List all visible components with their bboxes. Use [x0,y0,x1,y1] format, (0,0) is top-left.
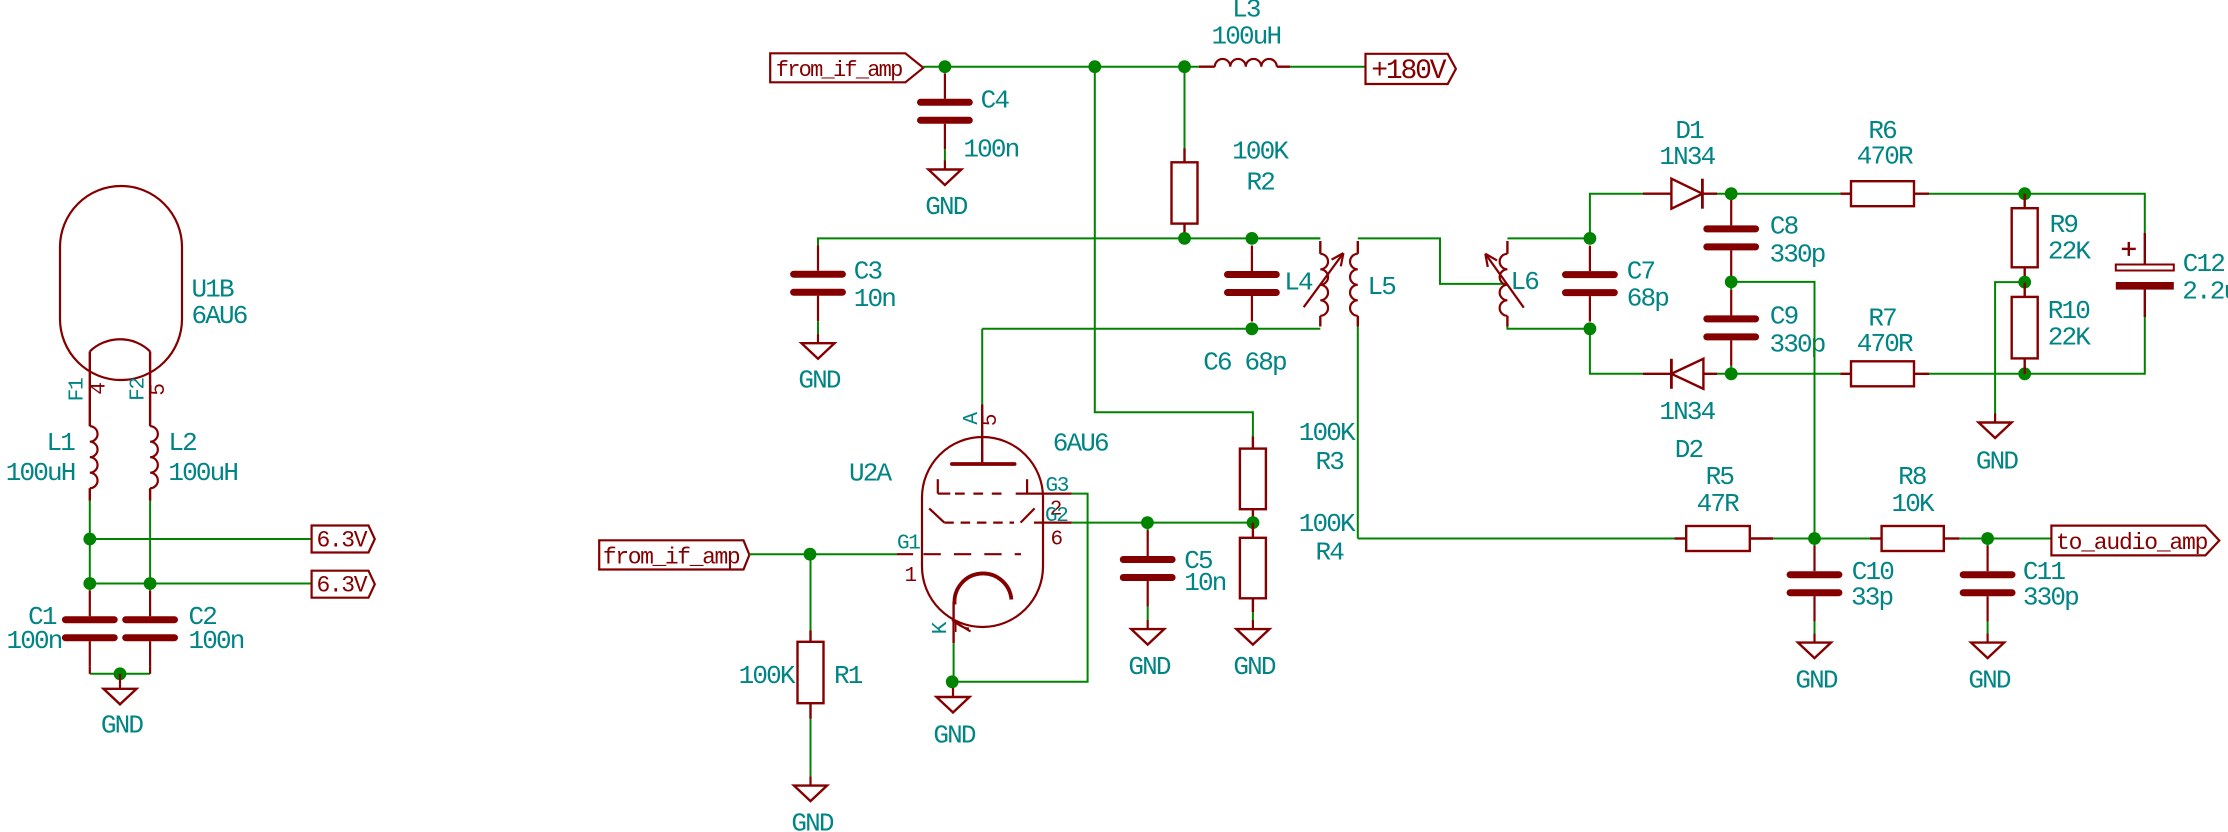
svg-text:G2: G2 [1045,505,1068,528]
resistor R5 [1674,537,1686,539]
ground [1147,620,1149,629]
wire G3 to cathode [952,494,1087,682]
svg-text:C4: C4 [981,85,1010,115]
svg-text:R4: R4 [1316,538,1345,568]
svg-text:330p: 330p [1770,239,1825,269]
svg-text:R2: R2 [1247,167,1275,197]
svg-text:100uH: 100uH [168,458,237,488]
wire L5 to L6 coupling [1358,238,1505,284]
wire from_if_amp to G1 [749,553,897,555]
svg-text:GND: GND [933,720,976,750]
wire anode to tank rail [981,329,983,405]
ground [1986,634,1988,643]
svg-text:7: 7 [953,622,976,633]
wire R6 to R9 and C12 [1929,194,2145,233]
junction [1178,60,1191,73]
svg-text:C6 68p: C6 68p [1203,347,1286,377]
svg-text:C3: C3 [854,256,882,286]
svg-text:L1: L1 [46,428,75,458]
svg-text:330p: 330p [1770,329,1825,359]
svg-text:GND: GND [925,192,968,222]
junction [114,667,127,680]
wire C5 to ground [1147,607,1149,622]
global label from_if_amp (top) [770,53,923,82]
svg-text:F1: F1 [67,378,90,401]
wire bottom join [90,673,150,675]
junction [1808,532,1821,545]
inductor L5 [1350,241,1358,327]
wire R1 to ground [810,719,812,778]
svg-text:GND: GND [798,366,841,396]
junction [83,533,96,546]
polarized capacitor C12 [2116,233,2174,317]
junction [1981,532,1994,545]
resistor R4 [1252,523,1254,538]
inductor L1 [90,426,98,488]
svg-text:47R: 47R [1697,489,1740,519]
wire cathode pin [953,643,955,682]
wire C7 top to D1 [1590,194,1643,239]
svg-text:2.2u: 2.2u [2182,277,2228,307]
svg-text:100K: 100K [1232,137,1289,167]
resistor R7 [1840,373,1851,375]
junction [2018,187,2031,200]
svg-text:100n: 100n [963,134,1018,164]
wire R9/R10 midpoint to ground [1995,282,2025,414]
svg-text:100K: 100K [1299,418,1356,448]
diode D2 [1643,373,1671,375]
wire G2 to R3/R4 divider [1072,522,1253,524]
tube U2A anode pin A 5 [952,405,1015,465]
wire L2 down to C2 [149,501,151,591]
junction [1247,516,1260,529]
junction [946,675,959,688]
svg-text:5: 5 [980,414,1003,426]
wire L5 bottom to detector rail [1357,327,1359,539]
wire C8/C9 midpoint to audio takeoff [1731,282,1814,539]
wire R2 top lead [1184,67,1186,150]
junction [804,548,817,561]
wire plate rail down to R3 route [1095,67,1253,437]
wire tank rail [982,328,1320,330]
svg-text:470R: 470R [1857,329,1913,359]
junction [1088,60,1101,73]
wire R7 to R10 and C12 [1929,317,2145,374]
svg-text:1: 1 [905,565,917,588]
svg-text:GND: GND [1233,652,1276,682]
wire L3 to +180V [1290,66,1366,68]
capacitor C1 [65,616,114,623]
capacitor C6 [1228,271,1277,278]
svg-text:from_if_amp: from_if_amp [776,58,902,83]
svg-text:to_audio_amp: to_audio_amp [2056,530,2208,556]
svg-text:from_if_amp: from_if_amp [603,544,740,570]
diode D1 [1643,192,1671,194]
resistor R1 [810,554,812,631]
capacitor C10 [1814,539,1816,547]
variable inductor L6 [1485,241,1524,327]
tube U2A grid G3 pin 2 [938,479,1072,493]
wire R8 to output [1959,538,2051,540]
svg-text:4: 4 [88,383,111,395]
wire C7 bottom to D2 [1590,329,1643,374]
wire R4 to ground [1252,612,1254,621]
variable inductor L4 [1252,238,1344,326]
capacitor C5 [1147,523,1149,531]
capacitor C8 [1707,225,1756,232]
resistor R3 [1252,437,1254,449]
svg-text:GND: GND [1968,666,2011,696]
svg-text:10n: 10n [854,284,896,314]
svg-text:68p: 68p [1627,284,1669,314]
tube U2A cathode K pin 7 [952,573,1011,643]
resistor R8 [1870,537,1882,539]
junction [1725,276,1738,289]
svg-text:L4: L4 [1284,268,1313,298]
junction [1246,232,1259,245]
tube U2A grid G1 pin 1 [897,553,1021,555]
global label from_if_amp (grid) [599,540,749,569]
junction [1178,232,1191,245]
svg-text:100K: 100K [739,661,796,691]
svg-text:33p: 33p [1851,582,1893,612]
resistor R2 [1183,148,1185,162]
svg-text:GND: GND [1128,652,1171,682]
svg-text:100n: 100n [189,626,244,656]
wire D2 to R7 [1717,373,1840,375]
wire L6 bottom to C7 [1507,327,1590,329]
svg-text:C8: C8 [1770,212,1798,242]
power label 6.3V (bottom) [312,571,375,598]
svg-text:U2A: U2A [849,459,893,489]
ground [1813,634,1815,643]
capacitor C11 [1987,539,1989,547]
svg-text:G3: G3 [1046,475,1069,498]
svg-text:6AU6: 6AU6 [192,301,247,331]
svg-text:C12: C12 [2183,249,2225,279]
svg-text:G1: G1 [897,533,920,556]
svg-text:R9: R9 [2050,210,2078,240]
svg-text:GND: GND [1976,447,2019,477]
global label to_audio_amp [2051,526,2219,556]
svg-text:22K: 22K [2048,323,2092,353]
resistor R9 [2023,194,2025,209]
tube U2A [922,437,1043,627]
resistor R10 [2023,282,2025,297]
power label 6.3V (top) [312,526,375,553]
wire 6.3V row A [90,538,312,540]
wire L1 down to C1 [89,501,91,591]
ground [104,674,137,705]
tube U1B [60,186,182,426]
svg-text:GND: GND [791,809,834,832]
svg-text:L2: L2 [168,428,196,458]
svg-text:100K: 100K [1299,509,1356,539]
svg-text:10n: 10n [1184,568,1226,598]
junction [144,577,157,590]
wire R5 to R8 [1773,538,1870,540]
svg-text:R5: R5 [1706,462,1734,492]
svg-text:6.3V: 6.3V [317,527,368,553]
svg-text:6AU6: 6AU6 [1053,429,1108,459]
wire C10 to ground [1814,622,1816,635]
junction [1725,367,1738,380]
svg-text:5: 5 [148,384,171,396]
svg-text:GND: GND [1795,666,1838,696]
junction [2018,276,2031,289]
junction [1584,322,1597,335]
junction [1141,516,1154,529]
wire C3 to ground [817,321,819,335]
wire D1 to R6 [1717,193,1840,195]
svg-text:F2: F2 [127,378,150,401]
ground [952,688,954,697]
junction [1725,187,1738,200]
svg-text:100n: 100n [6,626,61,656]
junction [1246,322,1259,335]
svg-text:100uH: 100uH [6,458,75,488]
svg-text:R3: R3 [1316,447,1344,477]
svg-text:22K: 22K [2048,237,2092,267]
wire 6.3V row B [90,583,312,585]
wire C4 to ground [944,149,946,161]
svg-text:6: 6 [1051,529,1063,552]
svg-text:+180V: +180V [1371,56,1446,87]
ground [1994,414,1996,423]
capacitor C3 [794,271,843,278]
capacitor C4 [921,99,970,106]
inductor L3 [1215,59,1277,67]
svg-text:L6: L6 [1511,267,1539,297]
wire top rail [923,66,1199,68]
power label +180V [1366,54,1456,84]
svg-text:330p: 330p [2023,582,2078,612]
capacitor C7 [1566,271,1615,278]
svg-text:1N34: 1N34 [1659,397,1715,427]
svg-text:D2: D2 [1675,435,1703,465]
resistor R6 [1840,192,1851,194]
inductor L2 [150,426,158,488]
ground [1252,620,1254,629]
junction [83,577,96,590]
junction [2018,367,2031,380]
wire L6 top to C7 [1507,237,1590,239]
svg-text:6.3V: 6.3V [317,573,368,599]
junction [1584,232,1597,245]
tube U2A grid G2 pin 6 [929,508,1072,522]
svg-text:10K: 10K [1892,489,1936,519]
svg-text:U1B: U1B [192,274,235,304]
svg-text:GND: GND [101,711,144,741]
svg-text:L5: L5 [1368,272,1396,302]
junction [939,60,952,73]
svg-text:R10: R10 [2048,296,2090,326]
wire second rail [818,238,1320,245]
capacitor C2 [126,616,175,623]
wire C8 leads [1730,194,1732,200]
svg-text:1N34: 1N34 [1659,142,1715,172]
ground [809,777,811,786]
svg-text:C9: C9 [1770,302,1798,332]
ground [944,161,946,170]
svg-text:R8: R8 [1898,462,1926,492]
ground [817,334,819,343]
svg-text:100uH: 100uH [1212,22,1281,52]
svg-text:K: K [930,621,953,634]
capacitor C9 [1707,315,1756,322]
wire detector rail to R5 [1358,538,1675,540]
wire C11 to ground [1987,622,1989,635]
svg-text:470R: 470R [1857,142,1913,172]
svg-text:R1: R1 [834,661,863,691]
svg-text:C7: C7 [1627,257,1655,287]
